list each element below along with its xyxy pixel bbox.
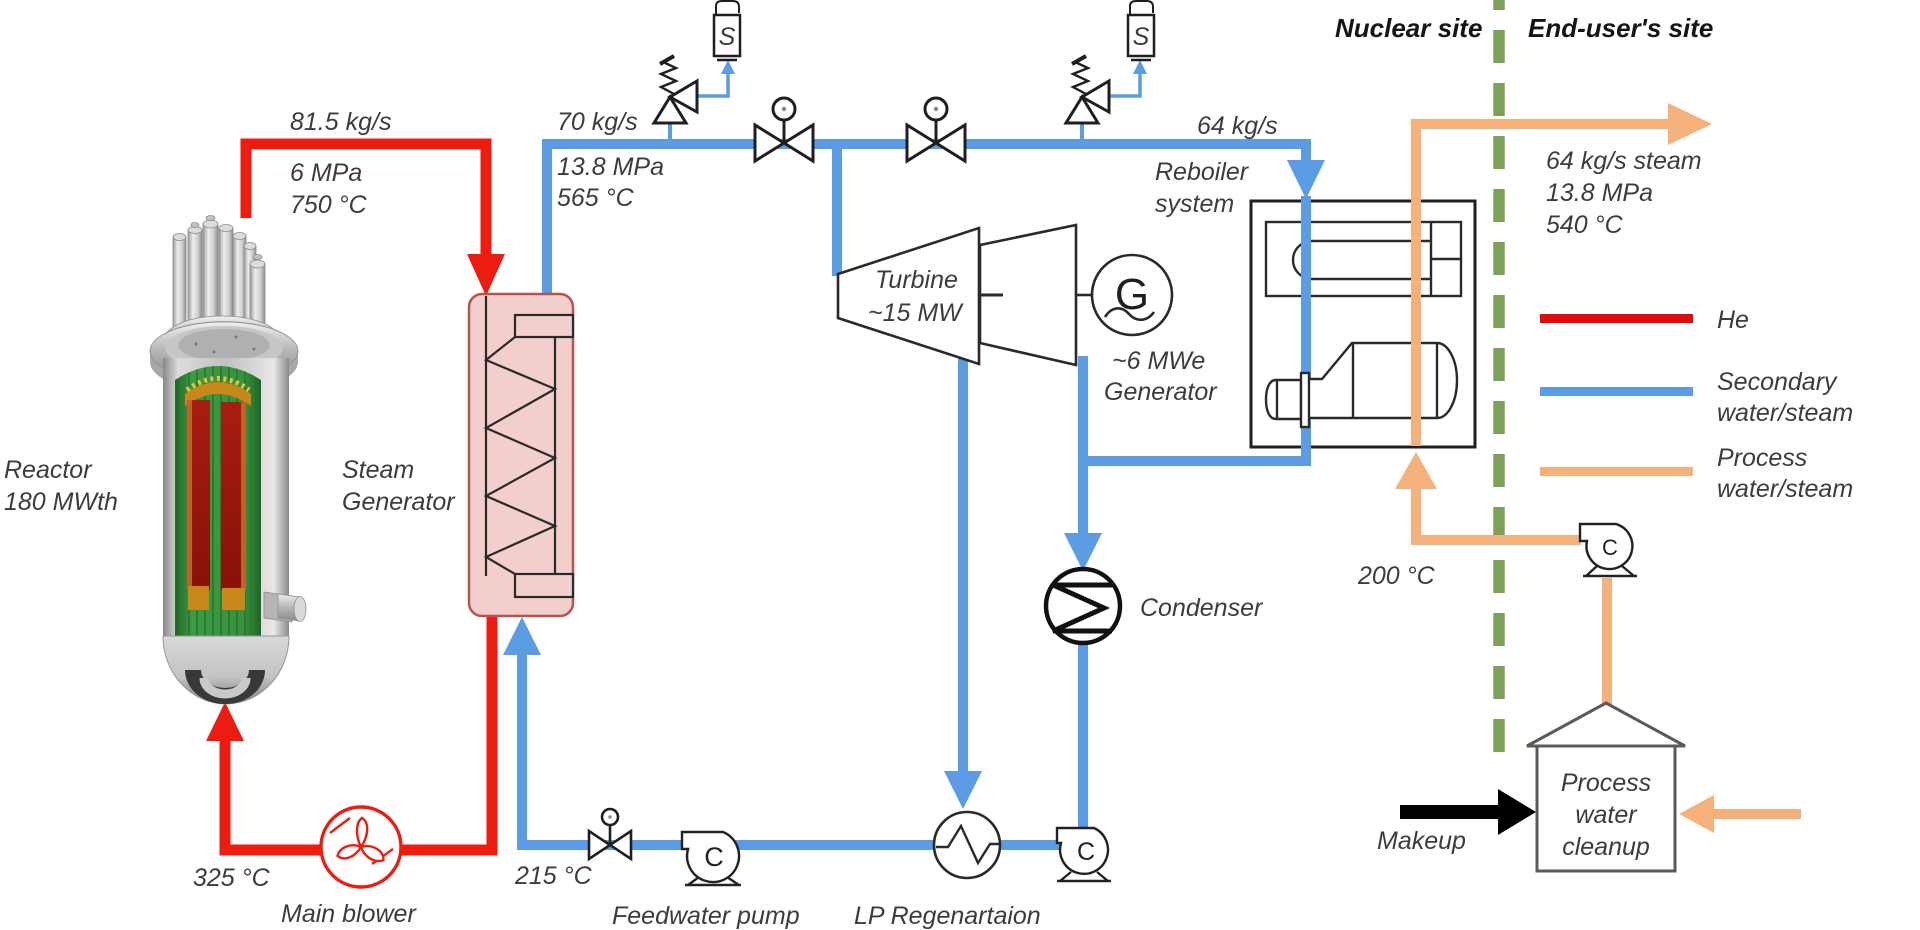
svg-text:Process: Process	[1717, 444, 1807, 472]
svg-text:Generator: Generator	[342, 488, 456, 516]
svg-text:End-user's site: End-user's site	[1528, 13, 1713, 43]
svg-text:Condenser: Condenser	[1140, 594, 1264, 622]
svg-text:Steam: Steam	[342, 456, 414, 484]
svg-text:81.5 kg/s: 81.5 kg/s	[290, 108, 391, 136]
svg-text:water: water	[1575, 801, 1638, 829]
svg-text:180 MWth: 180 MWth	[4, 488, 118, 516]
svg-text:Reactor: Reactor	[4, 456, 93, 484]
svg-text:C: C	[704, 842, 724, 872]
svg-text:G: G	[1115, 270, 1149, 319]
svg-text:Reboiler: Reboiler	[1155, 158, 1250, 186]
svg-text:Feedwater pump: Feedwater pump	[612, 902, 800, 930]
svg-text:system: system	[1155, 190, 1234, 218]
svg-text:325 °C: 325 °C	[193, 864, 271, 892]
svg-text:Main blower: Main blower	[281, 900, 417, 928]
svg-text:565 °C: 565 °C	[557, 184, 635, 212]
svg-text:Turbine: Turbine	[875, 266, 958, 294]
svg-text:He: He	[1717, 306, 1749, 334]
svg-text:64 kg/s steam: 64 kg/s steam	[1546, 147, 1702, 175]
svg-text:64 kg/s: 64 kg/s	[1197, 112, 1278, 140]
svg-text:C: C	[1602, 535, 1618, 560]
svg-text:LP Regenartaion: LP Regenartaion	[854, 902, 1041, 930]
svg-text:Generator: Generator	[1104, 378, 1218, 406]
svg-text:water/steam: water/steam	[1717, 475, 1853, 503]
svg-text:13.8 MPa: 13.8 MPa	[557, 153, 664, 181]
svg-text:540 °C: 540 °C	[1546, 211, 1624, 239]
svg-text:6 MPa: 6 MPa	[290, 159, 362, 187]
svg-text:215 °C: 215 °C	[514, 862, 593, 890]
svg-text:S: S	[1133, 23, 1150, 51]
svg-text:13.8 MPa: 13.8 MPa	[1546, 179, 1653, 207]
svg-text:Process: Process	[1561, 769, 1651, 797]
svg-text:cleanup: cleanup	[1562, 833, 1650, 861]
svg-text:S: S	[719, 23, 736, 51]
svg-text:Secondary: Secondary	[1717, 368, 1838, 396]
svg-text:C: C	[1077, 838, 1095, 866]
svg-text:Makeup: Makeup	[1377, 827, 1466, 855]
svg-text:~6 MWe: ~6 MWe	[1112, 347, 1205, 375]
svg-text:200 °C: 200 °C	[1357, 562, 1436, 590]
svg-text:Nuclear site: Nuclear site	[1335, 13, 1482, 43]
svg-text:water/steam: water/steam	[1717, 399, 1853, 427]
svg-text:~15 MW: ~15 MW	[868, 299, 964, 327]
svg-text:750 °C: 750 °C	[290, 191, 368, 219]
svg-text:70 kg/s: 70 kg/s	[557, 108, 638, 136]
